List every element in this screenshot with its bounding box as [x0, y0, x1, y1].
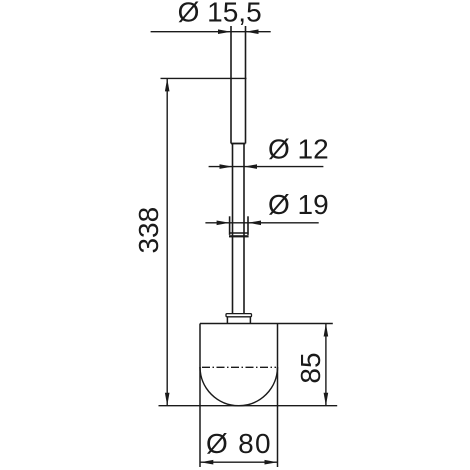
dimension line 85 vertical: [325, 324, 327, 406]
dimension line 338 vertical: [166, 78, 168, 405]
bowl right wall and Ø80 right extension line: [277, 324, 279, 468]
svg-text:Ø 80: Ø 80: [206, 428, 272, 459]
ferrule neck right edge: [249, 317, 251, 324]
handle tube Ø15.5 right edge: [245, 26, 247, 144]
dimension line Ø15,5: [151, 31, 271, 33]
handle tube bottom step: [231, 143, 246, 145]
collar flange band: [229, 235, 249, 237]
ferrule neck left edge: [226, 317, 228, 324]
svg-text:85: 85: [295, 352, 326, 383]
svg-text:Ø 12: Ø 12: [268, 134, 329, 165]
collar Ø19 left edge: [229, 216, 231, 235]
bottom shared extension line: [159, 405, 338, 407]
bowl centre dash-dot line: [202, 366, 276, 368]
ferrule cap band: [226, 314, 252, 317]
svg-text:Ø 15,5: Ø 15,5: [178, 0, 262, 27]
bowl left wall and Ø80 left extension line: [199, 324, 201, 468]
collar Ø19 right edge: [247, 216, 249, 235]
collar bottom line: [230, 232, 248, 234]
bowl hemisphere arc: [200, 367, 278, 406]
handle tube Ø15.5 left edge: [230, 26, 232, 144]
dimension line Ø80: [200, 461, 278, 463]
bowl top edge and 85 top extension line: [200, 323, 333, 325]
svg-text:Ø 19: Ø 19: [268, 189, 329, 220]
338 top extension line: [161, 77, 247, 79]
dimension line Ø12: [209, 166, 324, 168]
svg-text:338: 338: [133, 207, 164, 254]
dimension line Ø19: [205, 222, 318, 224]
rod Ø12 left edge: [232, 144, 234, 314]
rod Ø12 right edge: [243, 144, 245, 314]
